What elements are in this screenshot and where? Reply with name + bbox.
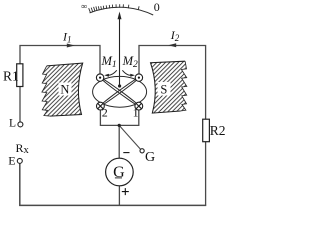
svg-text:0: 0 [154, 0, 160, 14]
svg-text:M2: M2 [122, 54, 138, 70]
svg-text:L: L [9, 118, 16, 130]
svg-text:I2: I2 [170, 28, 180, 43]
svg-text:∞: ∞ [81, 1, 87, 11]
svg-text:G: G [145, 150, 155, 165]
svg-text:R2: R2 [210, 123, 226, 138]
svg-text:2: 2 [102, 106, 108, 120]
svg-text:N: N [60, 82, 69, 96]
svg-text:M1: M1 [101, 54, 117, 70]
svg-text:I1: I1 [62, 30, 72, 45]
svg-text:Rx: Rx [16, 141, 30, 156]
svg-text:S: S [160, 83, 167, 97]
svg-text:R1: R1 [3, 69, 19, 84]
svg-text:E: E [8, 153, 15, 167]
svg-text:1: 1 [133, 106, 139, 120]
